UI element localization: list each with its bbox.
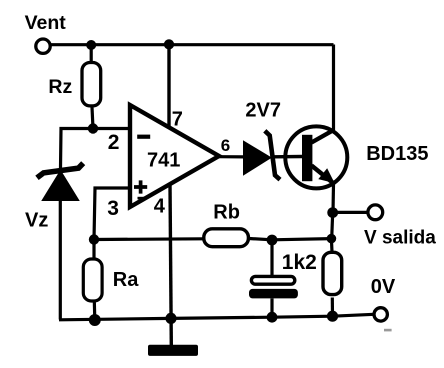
label V salida	[364, 228, 436, 249]
pin 7 label	[172, 108, 183, 130]
wire cap top lead	[270, 240, 273, 276]
diode 2V7 anode triangle	[244, 142, 270, 174]
resistor Rb	[204, 229, 249, 247]
svg-text:2: 2	[108, 131, 120, 154]
junction dot feedback node	[89, 234, 99, 244]
junction dot cap to rail	[267, 312, 278, 323]
wire diode to transistor base	[274, 155, 302, 159]
zener diode Vz	[37, 163, 83, 200]
wire 1k2 bottom lead	[331, 298, 334, 317]
wire op-amp pin 3 lead	[94, 188, 130, 240]
wire node to zener branch	[61, 129, 94, 169]
svg-text:3: 3	[107, 197, 119, 220]
svg-text:V salida: V salida	[364, 228, 436, 249]
terminal V salida	[368, 205, 383, 220]
wire cap bottom lead	[270, 299, 273, 318]
resistor Rz	[82, 63, 101, 106]
svg-text:6: 6	[221, 136, 230, 155]
terminal 0V	[374, 308, 387, 321]
label 741	[147, 150, 180, 172]
junction dot output node	[327, 207, 338, 218]
transistor base bar	[302, 135, 312, 181]
transistor emitter stroke with arrow	[312, 166, 333, 183]
svg-text:Rb: Rb	[213, 202, 240, 224]
transistor collector stroke	[312, 130, 335, 143]
diode 2V7 zener cathode bar	[265, 131, 280, 180]
wire top rail Vent to collector	[50, 43, 334, 46]
junction dot above pin 7	[164, 39, 174, 49]
pin 2 label	[108, 131, 120, 154]
capacitor bottom plate	[249, 289, 298, 299]
wire output node down to 1k2 top	[332, 213, 333, 239]
svg-text:Rz: Rz	[48, 76, 72, 98]
pin 6 label	[221, 136, 230, 155]
capacitor top plate	[251, 276, 294, 284]
svg-text:7: 7	[172, 108, 183, 130]
pin 4 label	[154, 196, 166, 218]
junction dot Ra to rail	[89, 314, 101, 326]
junction dot 1k2 top	[327, 234, 337, 244]
resistor 1k2	[323, 252, 342, 294]
op-amp U1 741 triangle	[130, 105, 219, 207]
wire Rz bottom lead	[92, 107, 93, 129]
wire 1k2 top lead	[330, 239, 334, 252]
svg-text:Ra: Ra	[113, 269, 139, 291]
junction dot pin4 on rail	[165, 313, 176, 324]
svg-text:2V7: 2V7	[245, 99, 281, 121]
wire cap node to 1k2 node	[272, 239, 331, 240]
svg-text:1k2: 1k2	[282, 251, 317, 274]
wire emitter down to output node	[331, 184, 335, 213]
svg-text:Vent: Vent	[25, 12, 67, 34]
wire Ra bottom lead	[93, 301, 97, 321]
svg-text:741: 741	[147, 150, 180, 172]
wire bottom rail	[59, 314, 374, 320]
junction node below Rz	[88, 123, 98, 133]
artifact dash below plus mark	[138, 197, 145, 200]
junction dot above Rz	[86, 40, 96, 50]
label 0V	[371, 276, 396, 298]
junction dot 1k2 to rail	[327, 311, 338, 322]
label Vent	[25, 12, 67, 34]
junction dot cap node	[267, 235, 278, 246]
artifact dash near 0V	[384, 329, 392, 332]
svg-text:4: 4	[154, 196, 166, 218]
ground symbol	[148, 345, 198, 356]
wire node to op-amp pin 2	[93, 127, 130, 130]
svg-text:BD135: BD135	[366, 143, 428, 165]
svg-text:Vz: Vz	[25, 209, 48, 231]
label Ra	[113, 269, 139, 291]
svg-text:0V: 0V	[371, 276, 396, 298]
terminal Vent	[36, 39, 50, 53]
label 2V7	[245, 99, 281, 121]
wire Ra top lead	[92, 240, 95, 259]
op-amp plus input mark	[134, 180, 147, 193]
label 1k2	[282, 251, 317, 274]
wire zener anode down to bottom rail	[59, 199, 62, 320]
wire feedback node to Rb	[94, 237, 203, 241]
wire output node to V salida terminal	[333, 211, 368, 214]
wire op-amp pin 7 supply	[167, 44, 170, 127]
label BD135	[366, 143, 428, 165]
wire Rz top lead	[90, 45, 93, 63]
pin 3 label	[107, 197, 119, 220]
resistor Ra	[83, 259, 102, 301]
wire Rb right lead to cap node	[249, 239, 272, 240]
wire collector drop from top rail	[332, 45, 335, 132]
label Vz	[25, 209, 48, 231]
wire op-amp pin 4 to ground	[170, 184, 171, 345]
wire op-amp output pin 6	[219, 155, 245, 158]
label Rz	[48, 76, 72, 98]
label Rb	[213, 202, 240, 224]
transistor Q1 BD135 circle	[285, 126, 347, 188]
op-amp minus input mark	[137, 135, 150, 139]
